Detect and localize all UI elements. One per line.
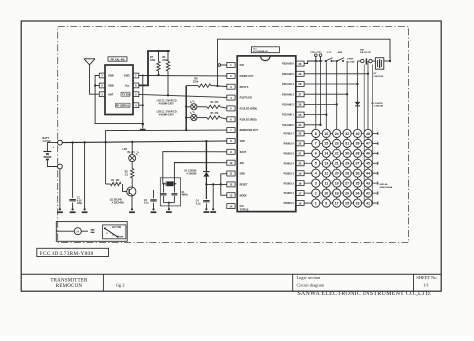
svg-text:22: 22	[298, 142, 301, 146]
IC1 pin 19 P03/KS 3	[296, 171, 304, 176]
svg-text:40: 40	[356, 132, 360, 136]
svg-text:27: 27	[345, 182, 349, 186]
svg-text:C-Y2: C-Y2	[327, 52, 333, 54]
key switch 26	[343, 189, 351, 197]
key switch 45	[364, 159, 372, 167]
svg-text:33: 33	[356, 201, 360, 205]
wire RF pin7/pin4 junction vertical	[142, 76, 144, 124]
IC1 pin 27 P20/AN0 3	[296, 92, 304, 97]
key switch 9	[322, 199, 330, 207]
IC1 pin 12 RESET	[227, 182, 235, 187]
svg-text:INT0# S: INT0# S	[240, 86, 249, 89]
key switch 30	[343, 149, 351, 157]
svg-text:P31/LED (GRN): P31/LED (GRN)	[240, 108, 257, 111]
svg-text:REMOCON OUT: REMOCON OUT	[240, 129, 259, 132]
svg-text:P32/LED (RED): P32/LED (RED)	[240, 118, 257, 121]
svg-text:10: 10	[324, 191, 328, 195]
crystal X1 box	[160, 178, 180, 206]
wire battery minus to ground	[59, 169, 61, 209]
ground crystal	[168, 208, 170, 210]
RF module pin 3 ANT	[99, 92, 105, 97]
wire thick Vcc bus RF pin6	[139, 51, 148, 85]
svg-text:25: 25	[298, 113, 301, 117]
svg-text:17: 17	[298, 191, 301, 195]
svg-text:P02/KS 2: P02/KS 2	[284, 182, 295, 185]
svg-text:3: 3	[315, 182, 317, 186]
key switch 48	[364, 129, 372, 137]
key switch 46	[364, 149, 372, 157]
svg-text:34: 34	[356, 191, 360, 195]
svg-text:19: 19	[335, 182, 339, 186]
key switch 40	[353, 129, 361, 137]
RF module pin 4 RF SERIAL	[133, 103, 139, 108]
IC1 pin 13 MODE	[227, 193, 235, 198]
svg-text:P20/AN0 3: P20/AN0 3	[282, 93, 294, 96]
svg-text:GND: GND	[240, 173, 246, 176]
svg-text:P32: P32	[240, 64, 245, 67]
svg-text:OPEN: OPEN	[347, 58, 354, 60]
key switch 20	[333, 169, 341, 177]
capacitor C3b	[173, 184, 175, 193]
wire RF pin7 to IC pin2	[139, 75, 227, 77]
IC1 pin 17 P01/KS 1	[296, 191, 304, 196]
ceramic resonator DA1 DA-167-2P	[375, 58, 383, 69]
svg-text:P21/AN1 4: P21/AN1 4	[282, 83, 294, 86]
wire RF GND bracket pins 1-2 to ground	[95, 76, 143, 124]
IC1 pin 3 INT0# S	[227, 84, 235, 89]
key switch 6	[312, 149, 320, 157]
svg-text:28: 28	[298, 82, 301, 86]
test point VTP1	[319, 60, 321, 62]
IC1 pin 20 P04/KS 4	[296, 161, 304, 166]
key switch 19	[333, 179, 341, 187]
svg-text:GENGOSHA: GENGOSHA	[380, 186, 393, 189]
svg-text:100u: 100u	[77, 203, 83, 205]
wire main V+ rail	[62, 141, 227, 143]
svg-text:RESET: RESET	[240, 184, 249, 187]
IC1 pin 10 XIN	[227, 160, 235, 165]
svg-text:fig 2: fig 2	[116, 282, 125, 287]
key switch 38	[353, 149, 361, 157]
svg-text:LPC932BA-2K: LPC932BA-2K	[253, 50, 268, 53]
svg-text:TRANSMITTER: TRANSMITTER	[50, 279, 88, 284]
key switch 21	[333, 159, 341, 167]
svg-text:220k: 220k	[193, 81, 199, 84]
svg-text:25: 25	[345, 201, 349, 205]
IC1 pin 7 REMOCON OUT	[227, 128, 235, 133]
key switch 15	[322, 139, 330, 147]
resistor R4 470	[197, 106, 207, 108]
svg-text:1/1: 1/1	[423, 283, 430, 288]
key switch 25	[343, 199, 351, 207]
svg-text:O: O	[112, 235, 114, 237]
RF module pin 7 GND	[133, 73, 139, 78]
svg-text:XIN: XIN	[240, 162, 244, 165]
meter M1	[56, 230, 74, 232]
RF module U2 body	[105, 65, 133, 115]
wire rail stub to ground	[84, 142, 86, 208]
RF module pin 1 GND	[99, 73, 105, 78]
svg-text:24: 24	[298, 123, 301, 127]
svg-text:17: 17	[335, 201, 339, 205]
key switch 2	[312, 189, 320, 197]
svg-text:13: 13	[324, 162, 328, 166]
key switch 1	[312, 199, 320, 207]
svg-text:ANT: ANT	[108, 92, 114, 96]
svg-text:DA1: DA1	[360, 49, 365, 52]
test point VTP2	[315, 60, 317, 62]
svg-text:VTP2 VTP1: VTP2 VTP1	[310, 52, 322, 54]
svg-text:Vcc: Vcc	[125, 84, 130, 88]
wire crystal to IC XOUT	[163, 152, 227, 184]
svg-text:TYPE-B: TYPE-B	[240, 209, 249, 212]
svg-text:46: 46	[366, 152, 370, 156]
key switch 42	[364, 189, 372, 197]
svg-text:P07/KS 7: P07/KS 7	[284, 133, 295, 136]
svg-text:# HSMH-C670: # HSMH-C670	[159, 114, 175, 116]
svg-text:20: 20	[298, 161, 301, 165]
svg-text:18: 18	[335, 191, 339, 195]
key switch 10	[322, 189, 330, 197]
svg-text:43: 43	[366, 182, 370, 186]
key switch 28	[343, 169, 351, 177]
svg-text:42: 42	[366, 191, 370, 195]
key switch 29	[343, 159, 351, 167]
FCC ID box	[37, 248, 109, 256]
svg-text:31: 31	[345, 142, 349, 146]
key switch 35	[353, 179, 361, 187]
title block divider 1	[102, 274, 104, 291]
svg-text:29: 29	[298, 72, 301, 76]
svg-text:21: 21	[335, 162, 339, 166]
svg-text:REMOCON: REMOCON	[56, 284, 83, 289]
svg-text:11: 11	[229, 172, 232, 176]
RF module label box	[108, 57, 127, 61]
resistor R8 220k	[186, 85, 198, 87]
svg-text:9: 9	[325, 201, 327, 205]
svg-text:12: 12	[229, 183, 232, 187]
IC1 pin 11 GND	[227, 171, 235, 176]
svg-text:16: 16	[324, 132, 328, 136]
svg-text:23: 23	[335, 142, 339, 146]
svg-text:35: 35	[356, 182, 360, 186]
svg-text:D2 1SS355: D2 1SS355	[372, 103, 384, 105]
svg-text:P04/KS 4: P04/KS 4	[284, 162, 295, 165]
key switch 39	[353, 139, 361, 147]
svg-text:P12/AN0 1: P12/AN0 1	[282, 114, 294, 117]
RF module pin 5 TX EN	[133, 92, 139, 97]
svg-text:GND: GND	[108, 74, 114, 78]
IC1 pin 24 P11/AN0 0	[296, 122, 304, 127]
wire LED anode vertical bus	[185, 86, 187, 131]
IC1 pin 9 XOUT	[227, 149, 235, 154]
resistor R2 2.2k	[131, 162, 133, 169]
svg-text:P03/KS 3: P03/KS 3	[284, 172, 295, 175]
svg-text:14: 14	[229, 204, 232, 208]
IC1 pin 26 P13/AN0 2	[296, 102, 304, 107]
svg-text:# HSMH-C670: # HSMH-C670	[159, 104, 175, 106]
svg-text:28: 28	[345, 172, 349, 176]
svg-text:23: 23	[298, 132, 301, 136]
title block separator line	[21, 273, 441, 275]
svg-text:TX EN: TX EN	[122, 92, 130, 96]
switch SW1 C-Y2	[325, 60, 327, 62]
microcontroller IC1 body	[237, 56, 296, 212]
svg-text:P05/KS 5: P05/KS 5	[284, 152, 295, 155]
switch ACT SW	[103, 225, 126, 239]
ground rail stub	[84, 208, 86, 210]
svg-text:220k: 220k	[162, 59, 168, 62]
IC1 pin 25 P12/AN0 1	[296, 112, 304, 117]
svg-text:P13/AN0 2: P13/AN0 2	[282, 104, 294, 107]
svg-text:10: 10	[229, 161, 232, 165]
svg-text:BL-R4: BL-R4	[128, 151, 136, 154]
svg-text:XOUT: XOUT	[240, 151, 247, 154]
key switch 27	[343, 179, 351, 187]
wire GND/MODE tie bracket	[221, 174, 227, 196]
svg-text:47: 47	[366, 142, 370, 146]
keypad button rows wires	[304, 132, 378, 134]
svg-text:P06/KS 6: P06/KS 6	[284, 142, 295, 145]
ground C1	[72, 208, 74, 210]
IC1 pin 5 P31/LED (GRN)	[227, 106, 235, 111]
svg-text:6: 6	[315, 152, 317, 156]
svg-text:32: 32	[345, 132, 349, 136]
resistor R7 220k	[158, 51, 160, 62]
svg-text:2: 2	[315, 191, 317, 195]
LED LD1	[131, 142, 133, 155]
svg-text:D1 1SS355: D1 1SS355	[185, 170, 197, 172]
svg-text:12: 12	[324, 172, 328, 176]
svg-text:14: 14	[324, 152, 328, 156]
svg-text:30: 30	[298, 62, 301, 66]
svg-text:MODE: MODE	[240, 194, 248, 197]
svg-text:DA-167-2P: DA-167-2P	[360, 51, 371, 54]
svg-text:# 2SC945B: # 2SC945B	[112, 202, 124, 205]
wire antenna to RF pin3	[90, 65, 100, 94]
IC1 pin 16 P00/KS 0	[296, 201, 304, 206]
title block divider 2	[292, 274, 294, 291]
ground C2	[152, 208, 154, 210]
IC1 pin 23 P07/KS 7	[296, 131, 304, 136]
svg-text:CLOSE: CLOSE	[347, 62, 355, 64]
key switch 33	[353, 199, 361, 207]
key switch 44	[364, 169, 372, 177]
switch SW2 AMP	[336, 60, 338, 62]
IC1 pin 21 P05/KS 5	[296, 151, 304, 156]
svg-text:29: 29	[345, 162, 349, 166]
capacitor C4 0.1u	[205, 177, 207, 199]
capacitor C3a	[163, 184, 165, 193]
wire top option bus	[304, 61, 322, 64]
wire INT0 to resonator top run	[218, 39, 391, 86]
svg-text:21: 21	[298, 152, 301, 156]
svg-text:FCC ID:L73RM-Y808: FCC ID:L73RM-Y808	[40, 251, 94, 257]
RF module pin 2 GND	[99, 83, 105, 88]
resistor R1 100	[123, 191, 127, 193]
svg-text:22: 22	[335, 152, 339, 156]
svg-text:LD2 CL-170UR-CD: LD2 CL-170UR-CD	[157, 101, 177, 103]
svg-text:P01/KS 1: P01/KS 1	[284, 192, 295, 195]
IC1 pin 2 P30/RF OUT	[227, 73, 235, 78]
svg-text:Q1 2SC945: Q1 2SC945	[110, 199, 123, 202]
key switch 36	[353, 169, 361, 177]
diode D2 zener on column 5	[355, 102, 361, 106]
capacitor C2 0.1u	[153, 190, 155, 198]
key switch 17	[333, 199, 341, 207]
key switch 31	[343, 139, 351, 147]
RF module pin 6 Vcc	[133, 83, 139, 88]
svg-text:4: 4	[315, 172, 317, 176]
wire IC to column junctions	[304, 73, 368, 75]
wire VSS branch to ground	[212, 184, 214, 208]
key switch 13	[322, 159, 330, 167]
LED LD3	[186, 117, 191, 119]
IC1 pin 8 VDD	[227, 139, 235, 144]
IC1 pin 6 P32/LED (RED)	[227, 117, 235, 122]
IC1 pin 29 P22/AN2 5	[296, 71, 304, 76]
battery B1 cells	[47, 143, 57, 152]
crystal X1	[163, 183, 166, 185]
key switch 41	[364, 199, 372, 207]
svg-text:# 1N4148: # 1N4148	[187, 172, 198, 175]
key switch 47	[364, 139, 372, 147]
svg-text:RF AXL-4M: RF AXL-4M	[111, 57, 125, 61]
wire matrix option verticals	[363, 65, 365, 206]
IC1 pin1 test point terminal	[221, 64, 227, 66]
wire crystal caps to ground	[164, 202, 175, 204]
key switch 22	[333, 149, 341, 157]
svg-text:P00/KS 0: P00/KS 0	[284, 202, 295, 205]
svg-text:1: 1	[315, 201, 317, 205]
IC1 label box	[251, 47, 279, 53]
key switch 32	[343, 129, 351, 137]
IC1 pin 22 P06/KS 6	[296, 141, 304, 146]
svg-text:36: 36	[356, 172, 360, 176]
IC1 pin 28 P21/AN1 4	[296, 82, 304, 87]
svg-text:48: 48	[366, 132, 370, 136]
svg-text:SANWA ELECTRONIC INSTRUMENT CO: SANWA ELECTRONIC INSTRUMENT CO.,LTD.	[297, 291, 432, 297]
svg-text:GND: GND	[124, 74, 130, 78]
transistor Q1 2SC945	[127, 187, 136, 196]
svg-text:18: 18	[298, 181, 301, 185]
IC1 pin 18 P02/KS 2	[296, 181, 304, 186]
key switch 3	[312, 179, 320, 187]
svg-text:220k: 220k	[150, 59, 156, 62]
LED LD2	[186, 106, 191, 108]
svg-text:13: 13	[229, 193, 232, 197]
IC1 pin 30 P23/AN3 6	[296, 61, 304, 66]
svg-text:# 1N4148: # 1N4148	[374, 105, 384, 108]
svg-text:37: 37	[356, 162, 360, 166]
svg-text:4MHz: 4MHz	[181, 194, 188, 197]
svg-text:LD3 CL-170UR-CD: LD3 CL-170UR-CD	[157, 111, 177, 113]
svg-text:4.5V: 4.5V	[77, 199, 82, 202]
IC1 pin 14 ICP	[227, 204, 235, 209]
key switch 11	[322, 179, 330, 187]
antenna AN1	[84, 58, 95, 60]
equivalence mark	[91, 229, 95, 231]
svg-text:11: 11	[324, 182, 328, 186]
key switch 37	[353, 159, 361, 167]
key switch 18	[333, 189, 341, 197]
svg-text:+: +	[53, 146, 55, 150]
key switch 4	[312, 169, 320, 177]
key switch 14	[322, 149, 330, 157]
wire test point vertical drop	[320, 61, 322, 125]
key switch 5	[312, 159, 320, 167]
svg-text:CAP222K: CAP222K	[374, 75, 384, 78]
IC1 pin 1 P32	[227, 63, 235, 68]
svg-text:27: 27	[298, 92, 301, 96]
wire crystal to IC XIN	[174, 163, 226, 184]
key switch 43	[364, 179, 372, 187]
svg-text:P30/RF OUT: P30/RF OUT	[240, 75, 254, 78]
diode D1 1SS355	[205, 141, 207, 171]
connector J1	[358, 60, 361, 62]
ground battery	[59, 208, 61, 210]
wire RF pin5 TX-EN to IC pin4	[139, 94, 227, 97]
ground VSS branch	[212, 208, 214, 210]
resistor R6 220k	[167, 51, 169, 62]
key switch 34	[353, 189, 361, 197]
svg-text:38: 38	[356, 152, 360, 156]
svg-text:44: 44	[366, 172, 370, 176]
wire rail riser to IC pin7 row	[106, 130, 227, 142]
key switch 23	[333, 139, 341, 147]
wire VSS node to IC RESET pin	[206, 183, 226, 185]
key switch 12	[322, 169, 330, 177]
svg-text:VDD: VDD	[240, 140, 245, 143]
resistor R5 470	[197, 117, 207, 119]
svg-text:5: 5	[315, 162, 317, 166]
svg-text:15: 15	[324, 142, 328, 146]
svg-text:0.1u: 0.1u	[144, 203, 149, 205]
key switch 24	[333, 129, 341, 137]
svg-text:Logic section: Logic section	[297, 275, 322, 280]
wire keypad column verticals	[315, 61, 317, 203]
svg-text:GND: GND	[108, 84, 114, 88]
IC1 pin 4 P33/TX-EN	[227, 95, 235, 100]
capacitor C1 100u	[72, 143, 74, 198]
svg-text:26: 26	[345, 191, 349, 195]
svg-text:ACT SW: ACT SW	[112, 226, 122, 229]
svg-text:8: 8	[315, 132, 317, 136]
svg-text:RF SERIAL: RF SERIAL	[116, 103, 130, 107]
key switch 7	[312, 139, 320, 147]
inner dashed schematic border	[58, 26, 409, 242]
svg-text:24: 24	[335, 132, 339, 136]
title block divider 3	[413, 274, 415, 291]
svg-text:SW1-48: SW1-48	[380, 183, 389, 186]
svg-text:41: 41	[366, 201, 370, 205]
svg-text:19: 19	[298, 171, 301, 175]
accessory box	[56, 222, 127, 242]
svg-text:0.1u: 0.1u	[196, 203, 201, 205]
svg-text:45: 45	[366, 162, 370, 166]
outer drawing frame	[21, 21, 441, 291]
svg-text:26: 26	[298, 103, 301, 107]
svg-text:39: 39	[356, 142, 360, 146]
key switch 8	[312, 129, 320, 137]
svg-text:30: 30	[345, 152, 349, 156]
svg-text:P23/AN3 6: P23/AN3 6	[282, 63, 294, 66]
svg-text:P22/AN2 5: P22/AN2 5	[282, 73, 294, 76]
ground C4	[205, 208, 207, 210]
ground RF module	[142, 123, 144, 125]
svg-text:7: 7	[315, 142, 317, 146]
svg-text:SHEET No.: SHEET No.	[416, 275, 437, 280]
